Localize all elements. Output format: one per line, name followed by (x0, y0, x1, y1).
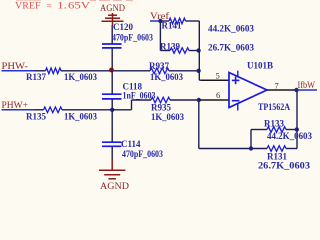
capacitor C114 (102, 139, 163, 159)
junction R133/right vertical (295, 127, 299, 131)
wire C114 to AGND (111, 147, 113, 160)
svg-text:6: 6 (216, 90, 220, 100)
svg-text:1.: 1. (57, 2, 67, 12)
svg-text:26.7K_0603: 26.7K_0603 (258, 160, 311, 170)
svg-text:IfbW: IfbW (298, 80, 316, 91)
svg-text:C120: C120 (113, 22, 133, 32)
svg-text:C114: C114 (121, 139, 141, 149)
svg-text:26.7K_0603: 26.7K_0603 (208, 43, 254, 53)
annotation VREF = 1.65V (15, 1, 90, 12)
capacitor C120 (102, 22, 153, 48)
resistor R139 (160, 41, 254, 53)
op-amp V+ stub (237, 71, 239, 78)
wire jog to R935 (132, 99, 152, 101)
svg-text:TP1562A: TP1562A (258, 102, 290, 112)
svg-text:R937: R937 (149, 61, 169, 71)
svg-text:VREF: VREF (15, 2, 41, 12)
wire R131 right (286, 148, 297, 150)
wire Vref tee down to R139 (159, 21, 161, 51)
wire C120 to junction A (111, 49, 113, 71)
junction B (110, 108, 114, 112)
junction R937/V1 (196, 69, 200, 73)
svg-text:470pF_0603: 470pF_0603 (112, 32, 153, 42)
wire V1 vertical (198, 21, 200, 80)
wire R137 to junction A (61, 70, 112, 72)
pin 6 (199, 99, 229, 101)
svg-text:R137: R137 (26, 72, 46, 82)
op-amp V- stub (237, 103, 239, 110)
resistor R141 (162, 18, 255, 33)
wire C118 to junction B (111, 99, 113, 109)
svg-text:44.2K_0603: 44.2K_0603 (267, 131, 312, 141)
resistor R937 (149, 61, 183, 82)
capacitor C118 (102, 82, 156, 101)
plus symbol (232, 77, 240, 101)
wire V1 corner to pin 5 (199, 79, 202, 81)
wire bottom feedback row (199, 148, 267, 150)
wire R139 left to Vref vertical (160, 50, 170, 52)
svg-text:R133: R133 (264, 119, 284, 129)
wire PHW- to R137 (35, 70, 46, 72)
junction output (294, 88, 298, 92)
resistor R135 (26, 107, 97, 122)
resistor R131 (258, 146, 311, 171)
wire R139 right to V1 (189, 50, 199, 52)
wire R141 to V1 corner (186, 20, 200, 22)
svg-text:7: 7 (275, 81, 279, 91)
svg-text:1K_0603: 1K_0603 (64, 72, 97, 82)
wire junction A to R937 (112, 70, 150, 72)
svg-text:AGND: AGND (100, 182, 129, 192)
wire junction A to C118 (111, 71, 113, 94)
junction R133 drop (249, 146, 253, 150)
wire feedback left vertical (198, 100, 200, 149)
wire stub under PHW- (2, 70, 36, 72)
wire R937 to V1 (169, 70, 199, 72)
cut-off red text fragments at top edge (16, 0, 133, 1)
power port AGND (bottom) (99, 160, 129, 193)
svg-text:1K_0603: 1K_0603 (151, 112, 184, 122)
svg-text:470pF_0603: 470pF_0603 (122, 149, 163, 159)
wire stub under IfbW (297, 89, 318, 91)
wire R135 to junction B (62, 109, 112, 111)
svg-text:=: = (47, 1, 52, 11)
svg-text:1K_0603: 1K_0603 (64, 112, 97, 122)
wire R935 to pin6 junction (170, 99, 199, 101)
svg-text:65V: 65V (68, 2, 90, 12)
junction pin6/feedback (197, 98, 201, 102)
svg-text:AGND: AGND (100, 4, 125, 14)
wire R133 left (251, 129, 267, 131)
svg-text:U101B: U101B (247, 60, 273, 70)
wire jog vertical (131, 100, 133, 110)
pin 7 (output) (267, 89, 297, 91)
wire R133 left drop (250, 130, 252, 149)
junction A (red dot) (109, 68, 114, 73)
wire Vref tee to R141 (160, 20, 169, 22)
wire junction B to jog (112, 109, 131, 111)
svg-text:1K_0603: 1K_0603 (150, 72, 183, 82)
wire feedback right vertical (296, 90, 298, 149)
pin 5 (201, 79, 229, 81)
resistor R133 (264, 119, 312, 141)
svg-text:5: 5 (216, 71, 220, 81)
wire junction B to C114 (111, 110, 113, 142)
svg-text:R135: R135 (26, 111, 46, 121)
resistor R935 (151, 97, 184, 122)
wire PHW+ to R135 (35, 109, 44, 111)
junction Vref tee (158, 19, 162, 23)
resistor R137 (26, 68, 97, 82)
minus symbol (232, 100, 240, 102)
wire stub under PHW+ (2, 109, 36, 111)
wire stub under Vref (150, 20, 161, 22)
svg-text:R141: R141 (162, 20, 182, 30)
wire R133 right (286, 129, 297, 131)
op-amp U101B (229, 60, 290, 112)
wire AGND to C120 (111, 25, 113, 44)
junction R139/V1 (196, 48, 200, 52)
svg-text:44.2K_0603: 44.2K_0603 (208, 23, 254, 33)
power port AGND (top) (100, 4, 125, 25)
